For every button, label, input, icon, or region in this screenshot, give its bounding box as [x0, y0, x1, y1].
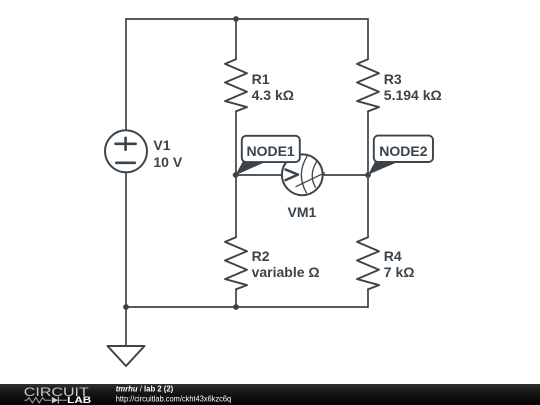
- svg-text:tmrhu / lab 2 (2): tmrhu / lab 2 (2): [116, 383, 174, 393]
- svg-text:NODE2: NODE2: [379, 143, 427, 159]
- svg-text:R3: R3: [384, 71, 402, 87]
- svg-text:VM1: VM1: [288, 204, 317, 220]
- svg-text:R1: R1: [252, 71, 270, 87]
- svg-text:LAB: LAB: [67, 395, 92, 405]
- svg-text:http://circuitlab.com/ckht43x6: http://circuitlab.com/ckht43x6kzc6q: [116, 394, 232, 404]
- svg-text:4.3 kΩ: 4.3 kΩ: [252, 87, 294, 103]
- svg-text:V1: V1: [153, 137, 170, 153]
- svg-text:variable Ω: variable Ω: [252, 264, 320, 280]
- svg-text:5.194 kΩ: 5.194 kΩ: [384, 87, 442, 103]
- svg-text:10 V: 10 V: [153, 154, 182, 170]
- svg-text:7 kΩ: 7 kΩ: [384, 264, 415, 280]
- svg-text:NODE1: NODE1: [246, 143, 294, 159]
- svg-text:R2: R2: [252, 248, 270, 264]
- svg-text:R4: R4: [384, 248, 402, 264]
